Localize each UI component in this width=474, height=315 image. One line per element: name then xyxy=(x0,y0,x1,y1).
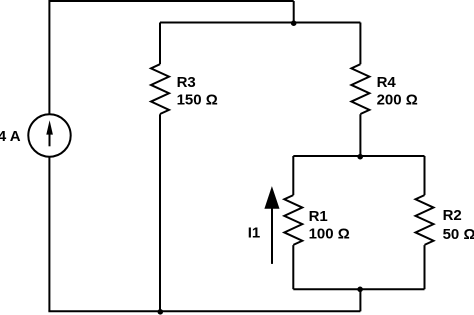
svg-text:R3: R3 xyxy=(177,74,196,91)
svg-text:200 Ω: 200 Ω xyxy=(377,91,418,108)
svg-text:R2: R2 xyxy=(443,207,462,224)
svg-text:R4: R4 xyxy=(377,74,397,91)
svg-text:150 Ω: 150 Ω xyxy=(177,91,218,108)
svg-text:R1: R1 xyxy=(309,208,328,225)
svg-text:50 Ω: 50 Ω xyxy=(443,226,474,243)
svg-text:I1: I1 xyxy=(248,225,261,242)
svg-text:4 A: 4 A xyxy=(0,128,21,145)
svg-text:100 Ω: 100 Ω xyxy=(309,225,350,242)
